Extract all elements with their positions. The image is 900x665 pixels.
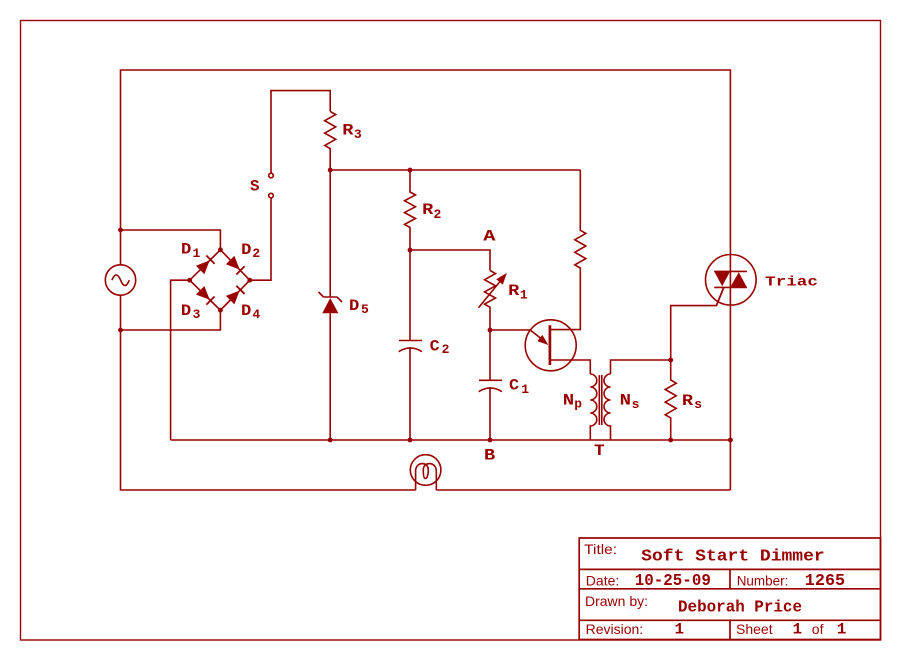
- svg-text:1: 1: [837, 621, 847, 639]
- svg-text:D: D: [241, 241, 251, 259]
- svg-text:4: 4: [252, 307, 260, 322]
- svg-text:N: N: [563, 392, 574, 410]
- svg-text:T: T: [594, 442, 605, 460]
- svg-text:C: C: [509, 376, 519, 394]
- svg-text:3: 3: [354, 127, 362, 142]
- svg-text:N: N: [620, 392, 631, 410]
- svg-text:D: D: [181, 241, 191, 259]
- svg-text:Drawn by:: Drawn by:: [585, 593, 648, 609]
- svg-text:1: 1: [793, 621, 803, 639]
- svg-text:R: R: [682, 392, 694, 410]
- svg-text:R: R: [342, 121, 354, 139]
- svg-text:R: R: [508, 282, 520, 300]
- svg-text:5: 5: [361, 302, 369, 317]
- svg-text:2: 2: [442, 342, 450, 357]
- svg-text:D: D: [349, 297, 359, 315]
- svg-text:Date:: Date:: [586, 573, 619, 589]
- svg-text:Revision:: Revision:: [586, 621, 644, 637]
- svg-text:p: p: [574, 397, 582, 412]
- svg-text:Title:: Title:: [584, 541, 617, 557]
- svg-text:1: 1: [521, 382, 529, 397]
- svg-text:Deborah Price: Deborah Price: [678, 599, 802, 618]
- svg-text:of: of: [812, 621, 824, 637]
- svg-text:Triac: Triac: [765, 274, 818, 290]
- svg-text:1: 1: [193, 246, 201, 261]
- svg-text:S: S: [250, 177, 260, 195]
- svg-text:Number:: Number:: [737, 573, 789, 589]
- svg-text:B: B: [484, 447, 496, 465]
- svg-text:C: C: [430, 337, 440, 355]
- svg-text:R: R: [422, 201, 434, 219]
- svg-text:1: 1: [675, 621, 685, 639]
- svg-text:D: D: [181, 302, 191, 320]
- svg-text:D: D: [241, 302, 251, 320]
- svg-text:s: s: [694, 397, 702, 412]
- svg-text:A: A: [483, 228, 496, 246]
- svg-text:Soft Start Dimmer: Soft Start Dimmer: [641, 547, 825, 566]
- svg-text:1265: 1265: [805, 572, 845, 591]
- svg-text:s: s: [632, 397, 640, 412]
- svg-text:2: 2: [434, 207, 442, 222]
- svg-text:1: 1: [520, 287, 528, 302]
- svg-text:2: 2: [252, 246, 260, 261]
- svg-text:Sheet: Sheet: [736, 621, 773, 637]
- svg-text:3: 3: [193, 307, 201, 322]
- svg-text:10-25-09: 10-25-09: [635, 572, 711, 591]
